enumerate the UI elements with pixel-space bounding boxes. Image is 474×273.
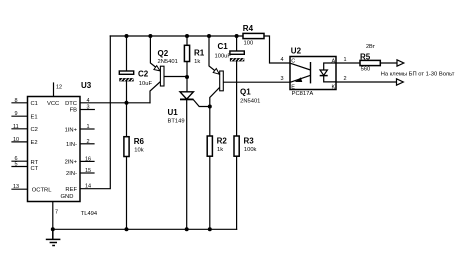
U2 inside letters — [291, 59, 335, 91]
svg-text:R2: R2 — [217, 137, 228, 146]
svg-text:15: 15 — [85, 168, 91, 174]
svg-text:PC817A: PC817A — [292, 91, 314, 97]
svg-text:K: K — [332, 84, 336, 90]
wire R1 top lead — [186, 36, 188, 45]
svg-text:2N5401: 2N5401 — [158, 59, 178, 65]
U2 LED — [324, 63, 336, 82]
svg-text:1: 1 — [344, 57, 347, 63]
svg-text:VCC: VCC — [47, 101, 59, 107]
wire DTC pin4 row — [80, 102, 150, 104]
U2 pin numbers — [281, 57, 347, 82]
transistor Q1 base bar — [220, 71, 224, 91]
wire Q2 base — [164, 76, 187, 78]
wire pin6 stub — [12, 160, 28, 162]
resistor R4 100 body — [243, 33, 264, 38]
wire Q2 collector — [150, 82, 161, 103]
svg-text:1IN-: 1IN- — [66, 142, 77, 148]
junction R1 bottom / Q2 base / U1 anode — [185, 75, 189, 79]
svg-text:1k: 1k — [194, 59, 200, 65]
wire bottom rail — [53, 228, 237, 230]
transistor Q2 base bar — [160, 66, 164, 86]
wire C1 top lead — [236, 36, 238, 51]
junction R1 top rail — [185, 34, 189, 38]
svg-text:11: 11 — [13, 124, 19, 130]
svg-text:TL494: TL494 — [81, 211, 98, 217]
svg-text:C1: C1 — [218, 42, 229, 51]
output arrow top — [397, 60, 404, 66]
svg-text:REF: REF — [65, 187, 77, 193]
resistor R5 560 body — [360, 60, 380, 65]
transistor Q1 emitter arrow — [213, 69, 219, 75]
wire C1 to R3 — [236, 61, 238, 136]
wire top rail right lead to U2 pin4 — [264, 36, 290, 63]
capacitor C2 bottom plate (polarized hatched) — [119, 78, 133, 81]
svg-text:14: 14 — [85, 184, 91, 190]
svg-text:GND: GND — [61, 194, 74, 200]
svg-text:2Вт: 2Вт — [366, 44, 376, 50]
svg-text:C2: C2 — [31, 127, 38, 133]
svg-text:C2: C2 — [138, 70, 149, 79]
junction R2 bottom rail — [208, 227, 212, 231]
capacitor C2 top plate — [119, 71, 133, 74]
svg-text:На клемы БП от 1-30 Вольт: На клемы БП от 1-30 Вольт — [381, 72, 455, 78]
svg-text:Q1: Q1 — [240, 87, 251, 96]
svg-text:2N5401: 2N5401 — [240, 98, 260, 104]
svg-text:U2: U2 — [291, 47, 302, 56]
wire C2 top lead — [126, 36, 128, 71]
wire pin2 stub — [80, 143, 94, 145]
svg-text:4: 4 — [281, 57, 284, 63]
svg-text:100k: 100k — [244, 147, 257, 153]
U2 phototransistor — [291, 63, 311, 82]
junction Q2 emitter top rail — [148, 34, 152, 38]
output arrow bottom — [397, 79, 404, 85]
wire U2 pin1 to R5 — [336, 62, 360, 64]
svg-text:2IN+: 2IN+ — [65, 160, 78, 166]
IC U3 pin labels inside — [31, 101, 78, 200]
resistor R1 1k body — [184, 45, 189, 61]
U2 emitter arrow — [296, 78, 302, 82]
svg-text:E1: E1 — [31, 114, 38, 120]
svg-text:100: 100 — [244, 41, 254, 47]
svg-text:9: 9 — [15, 111, 18, 117]
svg-text:5: 5 — [15, 162, 18, 168]
wire REF vertical (pin14 to top rail) — [80, 36, 110, 189]
svg-text:2: 2 — [344, 76, 347, 82]
wire pin16 stub — [80, 160, 94, 162]
svg-text:U3: U3 — [81, 81, 92, 90]
wire pin5 stub — [12, 166, 28, 168]
junction DTC row / C2-R6 node — [125, 101, 129, 105]
wire R2 to bottom rail — [209, 156, 211, 229]
IC U3 pin numbers — [13, 85, 91, 216]
wire R6 to bottom rail — [126, 157, 128, 230]
wire R3 to bottom rail — [236, 156, 238, 229]
resistor R3 100k body — [234, 136, 239, 156]
thyristor U1 BT149 triangle — [180, 92, 193, 99]
resistor R6 10k body — [124, 137, 129, 157]
svg-text:13: 13 — [13, 184, 19, 190]
svg-text:OCTRL: OCTRL — [32, 188, 52, 194]
wire Q1 collector to R2 — [210, 87, 220, 136]
wire top rail left segment — [110, 35, 243, 37]
svg-text:BT149: BT149 — [168, 118, 185, 124]
wire pin10 stub — [12, 141, 28, 143]
resistor R2 1k body — [207, 136, 212, 156]
svg-text:C: C — [291, 59, 295, 65]
transistor Q2 emitter arrow — [154, 66, 160, 71]
svg-text:CT: CT — [31, 166, 39, 172]
svg-text:A: A — [332, 59, 336, 65]
svg-text:1k: 1k — [217, 147, 223, 153]
svg-text:10k: 10k — [134, 147, 143, 153]
svg-text:E2: E2 — [31, 140, 38, 146]
junction U1 gate / Q1 collector / R2 top — [208, 105, 212, 109]
wire Q1 emitter — [209, 36, 220, 75]
junction C2 top rail — [125, 34, 129, 38]
svg-text:1IN+: 1IN+ — [65, 127, 78, 133]
IC U3 TL494 body — [28, 97, 81, 202]
wire pin15 stub — [80, 172, 94, 174]
svg-text:C1: C1 — [31, 101, 38, 107]
svg-text:R5: R5 — [360, 52, 371, 61]
wire U1 cathode to bottom rail — [186, 99, 188, 229]
svg-text:4: 4 — [87, 98, 90, 104]
wire pin11 stub — [12, 128, 28, 130]
wire R5 to arrow — [380, 62, 397, 64]
wire R1 bottom to U1 anode — [186, 62, 188, 92]
svg-text:10: 10 — [13, 137, 19, 143]
svg-text:R3: R3 — [244, 137, 255, 146]
svg-text:E: E — [291, 84, 295, 90]
junction C1 top rail — [235, 34, 239, 38]
svg-text:3: 3 — [87, 105, 90, 111]
wire pin8 stub — [12, 102, 28, 104]
wire pin13 stub — [12, 188, 28, 190]
svg-text:R1: R1 — [194, 49, 205, 58]
wire pin9 stub — [12, 115, 28, 117]
junction U1 cathode bottom rail — [185, 227, 189, 231]
svg-text:10uF: 10uF — [139, 81, 153, 87]
capacitor C1 bottom plate (polarized hatched) — [230, 58, 244, 61]
wire pin1 stub — [80, 128, 94, 130]
svg-text:7: 7 — [55, 210, 58, 216]
junction Q1 emitter top rail — [207, 34, 211, 38]
svg-text:2: 2 — [87, 139, 90, 145]
wire FB pin3 stub — [80, 109, 94, 111]
wire U2 pin2 to arrow — [336, 81, 397, 83]
wire U1 gate — [193, 100, 210, 107]
wire C2 to R6 — [126, 81, 128, 136]
optocoupler U2 PC817A box — [290, 57, 336, 90]
wire Q1 base to U2 pin3 — [223, 81, 290, 83]
svg-text:R6: R6 — [134, 137, 145, 146]
wire pin7 to ground rail — [52, 202, 54, 230]
svg-text:FB: FB — [70, 108, 78, 114]
svg-text:8: 8 — [15, 98, 18, 104]
junction GND pin7 / bottom rail — [51, 227, 55, 231]
svg-text:12: 12 — [56, 85, 62, 91]
svg-text:R4: R4 — [243, 24, 254, 33]
svg-text:3: 3 — [281, 76, 284, 82]
svg-text:Q2: Q2 — [158, 49, 169, 58]
svg-text:100uF: 100uF — [215, 53, 232, 59]
svg-text:U1: U1 — [168, 108, 179, 117]
capacitor C1 top plate — [230, 51, 244, 54]
wire Q2 emitter — [150, 36, 160, 71]
svg-text:DTC: DTC — [65, 101, 77, 107]
ground — [46, 229, 61, 245]
svg-text:1: 1 — [87, 124, 90, 130]
svg-text:2IN-: 2IN- — [66, 171, 77, 177]
junction R6 bottom rail — [125, 227, 129, 231]
wire pin12 stub — [53, 83, 55, 97]
svg-text:560: 560 — [361, 66, 371, 72]
svg-text:16: 16 — [85, 156, 91, 162]
thyristor U1 cathode bar — [180, 98, 193, 100]
